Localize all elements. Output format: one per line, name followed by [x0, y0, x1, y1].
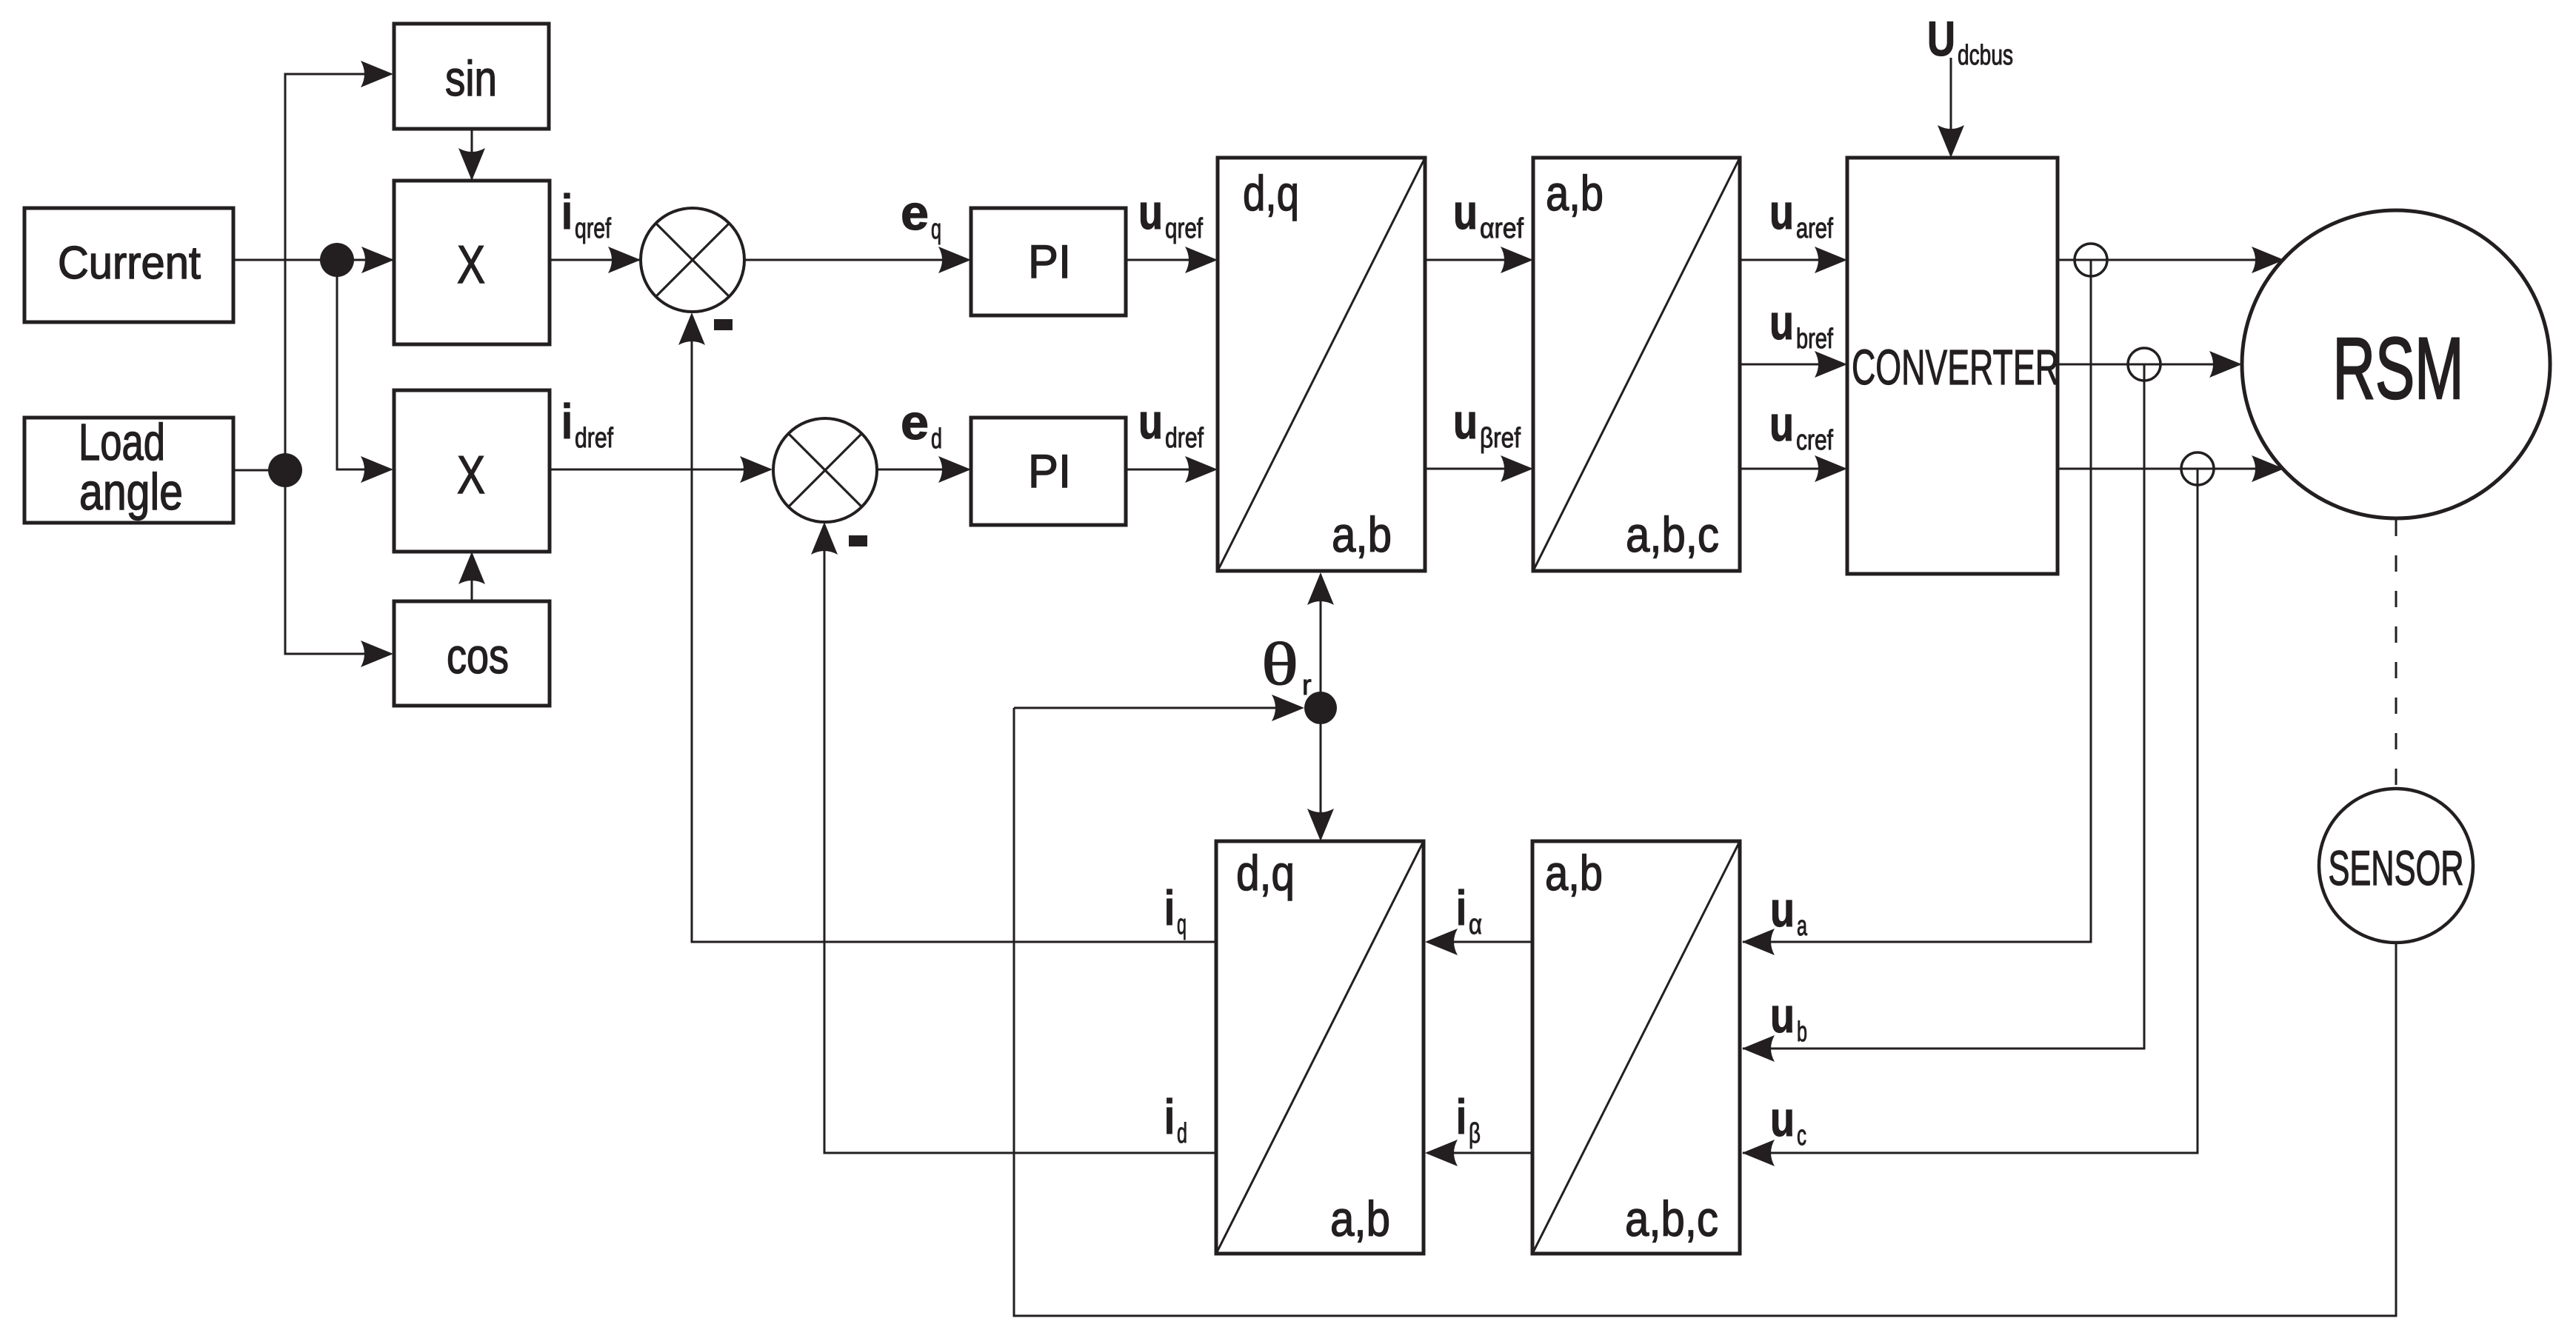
svg-text:RSM: RSM: [2333, 320, 2464, 418]
svg-text:u: u: [1453, 184, 1478, 239]
svg-text:a,b,c: a,b,c: [1625, 1191, 1718, 1247]
svg-text:u: u: [1453, 394, 1478, 449]
wire: node A down to X2 input: [337, 260, 393, 483]
block: cos: [394, 601, 550, 706]
block: sin: [394, 24, 549, 129]
svg-text:u: u: [1769, 295, 1794, 350]
svg-text:PI: PI: [1028, 446, 1071, 498]
node A dot (current branch): [320, 243, 354, 277]
svg-text:β: β: [1469, 1118, 1481, 1149]
wire: PI1 output u_qref to dq/ab transform: [1127, 247, 1218, 273]
wire: node A to X1 input with arrow: [337, 247, 394, 273]
svg-text:i: i: [1456, 1089, 1466, 1144]
svg-text:u: u: [1769, 184, 1794, 239]
label u_alpha_ref: [1453, 184, 1524, 244]
SENSOR circle: [2319, 789, 2473, 943]
svg-text:u: u: [1138, 184, 1163, 239]
wire: sensor feedback bottom run: [1014, 708, 2396, 1316]
svg-text:i: i: [1456, 880, 1466, 935]
wire: i_alpha from T4 to T3: [1425, 929, 1532, 955]
svg-text:u: u: [1138, 394, 1163, 449]
svg-text:u: u: [1769, 396, 1794, 451]
node B dot (load angle branch): [268, 453, 302, 487]
block: CONVERTER: [1847, 158, 2059, 574]
svg-text:cref: cref: [1796, 425, 1833, 456]
svg-text:a,b: a,b: [1545, 846, 1603, 901]
svg-text:r: r: [1302, 670, 1312, 701]
block: transform T3 alpha-beta to dq (feedback): [1216, 841, 1424, 1254]
tap circle c: [2181, 452, 2214, 485]
wire: X1 output i_qref to summing junction S1: [550, 247, 641, 273]
svg-text:d: d: [1177, 1118, 1187, 1149]
svg-text:dref: dref: [1165, 423, 1204, 454]
svg-text:aref: aref: [1796, 213, 1833, 244]
wire: u_aref from T2 to converter: [1740, 247, 1847, 273]
svg-text:θ: θ: [1261, 630, 1298, 698]
svg-text:u: u: [1770, 882, 1795, 937]
wire: S1 output e_q to PI1: [744, 247, 971, 273]
label e_q: [901, 185, 941, 245]
label u_qref: [1138, 184, 1203, 244]
svg-text:b: b: [1797, 1017, 1807, 1048]
svg-text:SENSOR: SENSOR: [2329, 840, 2464, 895]
svg-text:c: c: [1797, 1120, 1806, 1151]
label i_alpha: [1456, 880, 1482, 940]
svg-text:CONVERTER: CONVERTER: [1852, 340, 2059, 395]
svg-text:αref: αref: [1480, 213, 1524, 244]
wire: theta_r down into T3: [1307, 708, 1334, 841]
summing junction S2 (d axis): [773, 418, 877, 546]
svg-text:α: α: [1469, 909, 1482, 940]
svg-text:angle: angle: [79, 463, 183, 521]
label u_bref: [1769, 295, 1833, 355]
block: multiplier X2: [394, 390, 550, 552]
wire: i_d feedback from T3 up to S2: [811, 522, 1216, 1153]
block: transform T2 alpha-beta to abc: [1533, 158, 1740, 571]
block: multiplier X1: [394, 181, 550, 344]
label u_cref: [1769, 396, 1833, 456]
label u_aref: [1769, 184, 1833, 244]
wire: node B up and right to sin input: [285, 61, 393, 470]
svg-text:bref: bref: [1796, 324, 1833, 355]
label u_c: [1770, 1091, 1806, 1151]
node C dot (theta_r branch): [1304, 692, 1337, 724]
wire: u_cref from T2 to converter: [1740, 455, 1847, 482]
wire: cos output up to X2: [458, 552, 485, 601]
block: PI controller 2: [971, 418, 1126, 525]
svg-text:qref: qref: [575, 213, 611, 244]
label i_qref: [561, 184, 611, 244]
svg-text:e: e: [901, 395, 929, 449]
wire: i_q feedback from T3 up to S1: [678, 312, 1216, 942]
svg-text:a,b: a,b: [1330, 1191, 1390, 1247]
tap circle b: [2128, 348, 2160, 381]
wire: converter phase c to RSM: [2058, 455, 2284, 482]
svg-text:i: i: [561, 184, 573, 239]
wire: u_beta_ref from T1 to T2: [1425, 455, 1533, 482]
svg-text:sin: sin: [445, 51, 497, 107]
wire: tap b down and left to abc/ab transform (u_b): [1742, 364, 2144, 1062]
label i_d (feedback): [1164, 1089, 1187, 1149]
svg-text:X: X: [457, 446, 485, 505]
label u_b: [1770, 988, 1807, 1048]
tap circle a: [2075, 244, 2107, 276]
label theta_r: [1261, 630, 1312, 701]
svg-text:e: e: [901, 185, 929, 240]
svg-text:X: X: [457, 235, 485, 295]
wire: i_beta from T4 to T3: [1425, 1140, 1532, 1166]
label i_q (feedback): [1164, 880, 1187, 940]
block: Load angle input: [24, 413, 233, 523]
svg-text:βref: βref: [1480, 423, 1521, 454]
wire: u_alpha_ref from T1 to T2: [1425, 247, 1533, 273]
block: transform T1 dq to alpha-beta: [1218, 158, 1425, 571]
label i_dref: [561, 394, 613, 454]
wire: Current output to node A: [233, 259, 337, 261]
wire: converter phase b to RSM: [2058, 351, 2242, 378]
svg-text:d,q: d,q: [1243, 166, 1299, 221]
svg-text:q: q: [1177, 909, 1187, 940]
block: transform T4 abc to alpha-beta (feedback): [1532, 841, 1740, 1254]
label u_dref: [1138, 394, 1204, 454]
svg-text:dref: dref: [575, 423, 613, 454]
svg-text:Current: Current: [58, 238, 201, 289]
wire: u_bref from T2 to converter: [1740, 351, 1847, 378]
wire: Load angle output to node B: [233, 469, 285, 472]
wire: S2 output e_d to PI2: [877, 456, 971, 483]
wire: PI2 output u_dref to dq/ab transform: [1127, 456, 1218, 483]
wire: sin output down to X1: [458, 129, 485, 184]
wire: theta_r from sensor line to node C: [1014, 695, 1304, 721]
wire: node B down and right to cos input: [285, 470, 393, 667]
svg-text:qref: qref: [1165, 213, 1203, 244]
svg-text:u: u: [1770, 988, 1795, 1043]
wire: tap a down and left to abc/ab transform (u_a): [1742, 260, 2091, 955]
wire: dashed shaft RSM to sensor: [2395, 520, 2398, 788]
label e_d: [901, 395, 942, 455]
svg-text:U: U: [1927, 11, 1955, 66]
summing junction S1 (q axis): [641, 208, 744, 330]
svg-text:q: q: [931, 214, 941, 245]
wire: U_dcbus down into converter: [1938, 58, 1964, 158]
svg-text:cos: cos: [447, 629, 509, 684]
block: PI controller 1: [971, 208, 1126, 315]
svg-text:i: i: [1164, 1089, 1175, 1144]
svg-text:dcbus: dcbus: [1958, 40, 2013, 71]
svg-text:a,b,c: a,b,c: [1626, 507, 1719, 563]
svg-text:a: a: [1797, 911, 1808, 942]
wire: X2 output i_dref to summing junction S2: [550, 456, 773, 483]
svg-text:PI: PI: [1028, 236, 1071, 288]
svg-text:d,q: d,q: [1236, 846, 1295, 901]
wire: tap c down and left to abc/ab transform (u_c): [1742, 469, 2198, 1166]
wire: theta_r up into T1: [1307, 572, 1334, 708]
wire: converter phase a to RSM: [2058, 247, 2284, 273]
svg-text:d: d: [931, 424, 942, 455]
label u_beta_ref: [1453, 394, 1521, 454]
svg-text:u: u: [1770, 1091, 1795, 1146]
label U_dcbus: [1927, 11, 2013, 71]
svg-text:i: i: [1164, 880, 1175, 935]
svg-text:i: i: [561, 394, 573, 449]
svg-text:a,b: a,b: [1332, 507, 1392, 563]
label i_beta: [1456, 1089, 1481, 1149]
block: Current input: [24, 208, 233, 322]
svg-text:a,b: a,b: [1546, 166, 1604, 221]
label u_a: [1770, 882, 1808, 942]
RSM machine circle: [2242, 210, 2550, 518]
